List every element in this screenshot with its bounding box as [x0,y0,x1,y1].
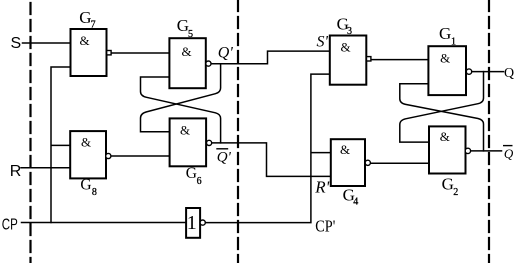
svg-text:1: 1 [187,212,197,234]
wire CP vertical branch to G7 and G8 [51,67,71,223]
svg-text:&: & [81,135,91,150]
NAND gate G2 [429,126,471,173]
wire Q output [472,71,504,73]
svg-text:CP: CP [2,216,18,233]
svg-text:G: G [80,177,91,194]
wire G3 output to G1 input [371,59,429,61]
svg-text:G: G [439,24,451,43]
svg-text:&: & [340,142,350,157]
svg-text:R: R [10,163,22,180]
wire Q' cross-coupling to G6 upper input [141,64,221,132]
wire G4 output to G2 input [370,162,428,164]
svg-text:&: & [440,129,450,144]
dashed divider line 1 (left) [29,0,31,263]
svg-text:R': R' [314,178,329,197]
wire Q' output to S' of G3 [211,51,330,64]
NAND gate G7 [71,29,112,76]
dashed divider line 2 (middle) [237,0,239,263]
NAND gate G1 [428,46,471,95]
NAND gate G3 [330,36,371,85]
svg-text:&: & [80,33,90,48]
wire CP' from inverter to G3 and G4 [205,74,331,223]
svg-text:&: & [341,39,351,54]
svg-text:1: 1 [451,37,456,48]
wire R input [21,167,70,169]
svg-text:Q': Q' [218,45,234,62]
wire Q cross-coupling to G2 upper input [400,72,484,143]
wire CP input [22,222,187,224]
inverter 1 (CP inverter) [186,208,205,238]
NAND gate G8 [70,131,111,178]
svg-text:4: 4 [353,196,358,207]
NAND gate G6 [170,118,212,166]
wire Q-bar cross-coupling to G1 lower input [400,84,484,151]
svg-text:&: & [182,44,192,59]
svg-text:G: G [186,165,197,182]
svg-text:5: 5 [188,29,193,40]
svg-text:G: G [442,175,454,194]
svg-text:&: & [440,51,450,66]
wire Q-bar output [471,150,502,152]
svg-text:6: 6 [197,176,202,187]
wire G7 output to G5 input [111,52,169,54]
wire S input [23,42,71,44]
svg-text:Q: Q [504,146,514,161]
NAND gate G4 [331,139,371,186]
svg-text:8: 8 [92,187,97,198]
NAND gate G5 [169,38,211,88]
svg-text:Q: Q [504,66,514,81]
wire G8 output to G6 input [111,155,170,157]
dashed divider line 3 (right) [488,0,490,263]
svg-text:2: 2 [453,187,458,198]
svg-text:&: & [180,122,190,137]
wire Q-bar' output to R' of G4 [212,143,331,177]
wire Q-bar' cross-coupling to G5 lower input [141,77,221,143]
svg-text:S': S' [317,34,329,51]
svg-text:S: S [11,35,22,52]
svg-text:CP': CP' [315,216,335,235]
svg-text:Q': Q' [217,150,232,166]
svg-text:7: 7 [91,20,96,31]
overline of Q-bar' label [217,148,228,150]
overline of Q-bar label [504,145,512,147]
svg-text:3: 3 [347,26,352,37]
